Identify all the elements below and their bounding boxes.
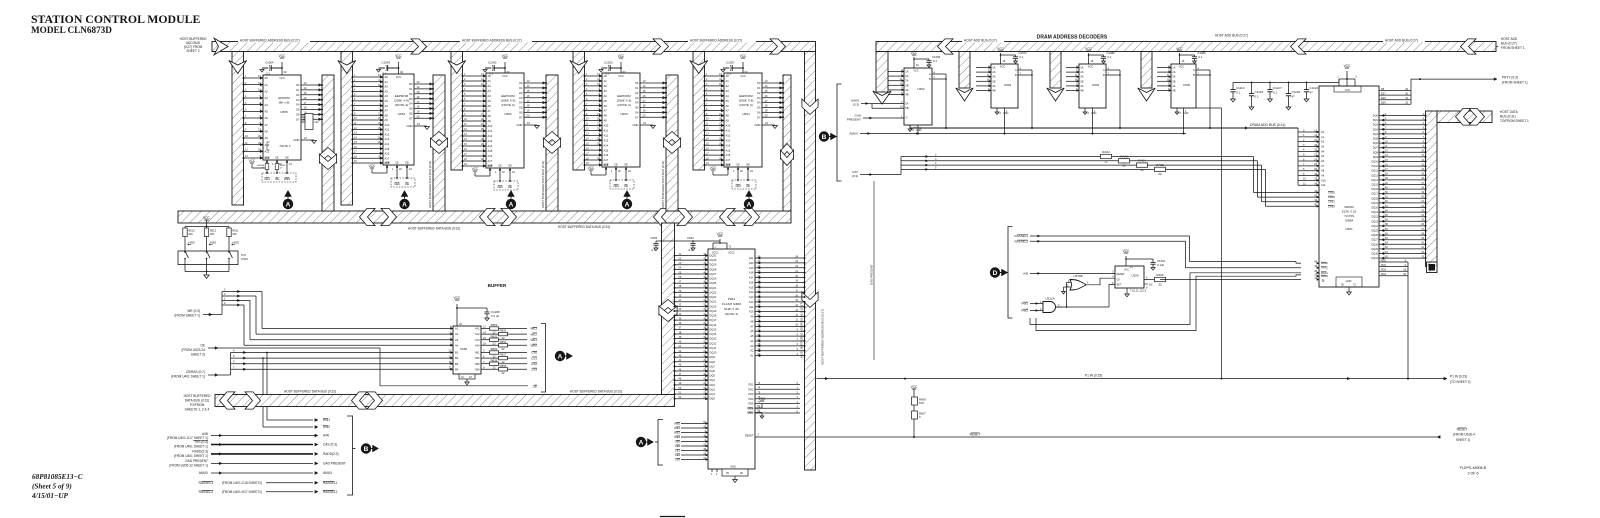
svg-text:CAS (0:3): CAS (0:3) [323, 443, 337, 447]
svg-text:DQ6: DQ6 [1373, 142, 1379, 145]
svg-text:A14: A14 [604, 143, 609, 147]
wire W line to DRAM [1166, 279, 1302, 281]
svg-text:5B: 5B [905, 106, 908, 110]
svg-text:GND: GND [916, 129, 922, 132]
svg-text:CAS1: CAS1 [1328, 200, 1335, 204]
svg-text:A2: A2 [385, 85, 389, 89]
svg-text:GND: GND [1346, 279, 1352, 283]
svg-text:B4: B4 [455, 367, 459, 371]
svg-text:A6: A6 [265, 116, 269, 120]
svg-text:A9: A9 [726, 119, 730, 123]
svg-text:A7: A7 [726, 109, 730, 113]
svg-text:CE: CE [614, 164, 618, 167]
svg-text:VPP1: VPP1 [747, 406, 754, 410]
svg-text:2A: 2A [1172, 70, 1175, 74]
connector marker B bottom-left [361, 443, 371, 453]
svg-text:A6: A6 [726, 104, 730, 108]
svg-text:DQ19: DQ19 [710, 309, 717, 313]
svg-text:DQ26: DQ26 [1371, 234, 1378, 237]
svg-text:HOST ADD BUS (0:27): HOST ADD BUS (0:27) [1215, 34, 1248, 38]
svg-text:22: 22 [1140, 168, 1144, 172]
svg-text:VCC: VCC [454, 296, 461, 300]
svg-text:U601: U601 [1345, 227, 1353, 231]
svg-text:3 OF 6: 3 OF 6 [1468, 472, 1479, 476]
svg-text:C1057: C1057 [726, 61, 735, 65]
svg-text:R652: R652 [491, 334, 498, 338]
bracket buffer outputs [541, 324, 546, 393]
svg-text:A2: A2 [1321, 140, 1325, 144]
signal rows bottom-left [167, 418, 346, 494]
wire OE to buffer enable [230, 348, 528, 386]
svg-text:VCC: VCC [911, 51, 918, 55]
svg-text:RESET: RESET [745, 433, 754, 437]
svg-text:1A: 1A [905, 70, 908, 74]
svg-text:VCC: VCC [1179, 66, 1184, 69]
wire RAS2 RAS3 from gates [1030, 273, 1301, 331]
bus break arrow [770, 39, 786, 54]
svg-text:A4: A4 [385, 94, 389, 98]
svg-text:A: A [286, 201, 291, 208]
svg-text:VCC: VCC [502, 74, 508, 78]
wire decoder output down to P1 IN [1221, 108, 1223, 379]
bus down arrow on right vertical [802, 99, 818, 115]
svg-text:A15: A15 [488, 149, 493, 153]
P651 VPP pins and VCC [747, 397, 766, 419]
svg-text:A9: A9 [488, 119, 492, 123]
svg-text:A8: A8 [726, 114, 730, 118]
svg-text:0.1: 0.1 [1108, 55, 1112, 59]
svg-text:A15: A15 [604, 148, 609, 152]
svg-text:D26: D26 [1381, 97, 1386, 100]
svg-text:A12: A12 [604, 133, 609, 137]
svg-text:A17: A17 [385, 156, 390, 160]
svg-text:STATION CONTROL MODULE: STATION CONTROL MODULE [31, 12, 200, 26]
svg-text:NOTE 3: NOTE 3 [280, 144, 291, 148]
NC stub box beside U655 [301, 116, 305, 118]
svg-text:CK: CK [1117, 279, 1121, 282]
svg-text:A5: A5 [604, 99, 608, 103]
svg-text:A5: A5 [750, 334, 754, 338]
svg-text:(256K X 8): (256K X 8) [394, 99, 409, 103]
svg-text:A: A [625, 201, 630, 208]
svg-text:A11: A11 [488, 129, 493, 133]
bus data drop U654 [783, 75, 791, 211]
bus corner drop to decoders [876, 52, 888, 93]
connector marker B to decoders [819, 131, 829, 141]
svg-text:YA4: YA4 [475, 343, 480, 347]
svg-text:O2: O2 [409, 92, 413, 96]
svg-text:DQ12: DQ12 [1371, 170, 1378, 173]
svg-text:DQ29: DQ29 [710, 263, 717, 267]
connector marker D [990, 267, 1000, 277]
svg-text:DQ14: DQ14 [1371, 179, 1378, 182]
wire CAS branch lines [901, 154, 1155, 171]
svg-text:U652: U652 [504, 112, 512, 116]
svg-text:A1: A1 [385, 80, 389, 84]
wires DRAM PD pins to P1 line [1379, 259, 1408, 378]
svg-text:WE3: WE3 [674, 435, 680, 439]
svg-text:HOST ADD: HOST ADD [1501, 37, 1518, 41]
svg-text:VCC1: VCC1 [712, 252, 719, 255]
AND gate U512A [1021, 297, 1062, 313]
svg-text:(256K X 8): (256K X 8) [501, 99, 516, 103]
svg-text:A2: A2 [265, 89, 269, 93]
svg-text:0.1: 0.1 [1020, 55, 1024, 59]
svg-text:A3: A3 [455, 338, 459, 342]
flash SIMM P651 [708, 249, 755, 469]
wire DRAM ADD BUS (0:11) [910, 123, 1298, 132]
svg-text:5A: 5A [905, 102, 908, 106]
svg-text:47: 47 [1310, 90, 1314, 94]
svg-text:A10: A10 [604, 124, 609, 128]
svg-text:(FROM U401 SHEET 1): (FROM U401 SHEET 1) [174, 445, 208, 449]
svg-text:A15: A15 [749, 285, 754, 289]
svg-text:VPP: VPP [487, 165, 492, 168]
svg-text:22: 22 [1158, 172, 1162, 176]
svg-text:R653: R653 [500, 329, 507, 333]
svg-text:DQ8: DQ8 [1373, 151, 1379, 154]
svg-text:DQ20: DQ20 [1371, 207, 1378, 210]
svg-text:MODEL CLN6873D: MODEL CLN6873D [31, 25, 112, 35]
bus address drop to U654 [693, 52, 705, 171]
bus address drop to U655 [232, 52, 244, 206]
svg-text:SET: SET [1117, 284, 1122, 287]
svg-text:A8: A8 [385, 113, 389, 117]
svg-text:(FROM U401-H17 SHEET1): (FROM U401-H17 SHEET1) [222, 490, 262, 494]
host data bus chevrons [1456, 108, 1472, 125]
svg-text:RAS3: RAS3 [1321, 274, 1328, 278]
svg-text:DQ20: DQ20 [710, 304, 717, 308]
EEPROM U652 [462, 54, 548, 190]
svg-text:(NOTE 4): (NOTE 4) [395, 103, 408, 107]
buffer U656 [449, 296, 500, 385]
svg-text:PD4: PD4 [1381, 273, 1386, 276]
svg-text:GND: GND [517, 123, 523, 127]
svg-text:DQ27: DQ27 [710, 272, 717, 276]
svg-text:PD3: PD3 [1381, 269, 1386, 272]
svg-text:A2: A2 [604, 84, 608, 88]
svg-text:CE: CE [498, 165, 502, 168]
svg-text:VCC: VCC [472, 167, 479, 171]
svg-text:A3: A3 [265, 96, 269, 100]
svg-text:A3: A3 [604, 89, 608, 93]
svg-text:DQ0: DQ0 [1373, 115, 1379, 118]
svg-text:R655: R655 [500, 364, 507, 368]
svg-text:CAS0: CAS0 [1328, 191, 1335, 195]
wire GAD PRESENT vertical run [873, 181, 875, 360]
svg-text:DQ25: DQ25 [710, 281, 717, 285]
data bus chevrons [360, 208, 376, 225]
svg-text:B1: B1 [455, 351, 459, 355]
svg-text:0.1 uF: 0.1 uF [491, 314, 499, 318]
svg-text:A12: A12 [726, 133, 731, 137]
svg-text:(2:3): (2:3) [853, 103, 859, 107]
right bus break arrows [938, 39, 954, 54]
svg-text:R511: R511 [232, 229, 239, 233]
svg-text:A12: A12 [488, 134, 493, 138]
OR gate U510B [1062, 274, 1115, 294]
bus break arrow [411, 39, 427, 54]
svg-text:RADD(2:3): RADD(2:3) [323, 452, 339, 456]
svg-text:DQ15: DQ15 [710, 327, 717, 331]
svg-text:(NOTE 4): (NOTE 4) [739, 103, 752, 107]
svg-text:4B: 4B [1080, 89, 1083, 93]
svg-text:O6: O6 [519, 111, 523, 115]
svg-text:RA02: RA02 [1102, 150, 1110, 154]
VCC rail and decoupling caps C1119 C1126 C1127 C1129 C1132 [1230, 78, 1348, 110]
svg-text:P1 IN (0:23): P1 IN (0:23) [1450, 375, 1467, 379]
label HOST BUFFERED ADDRESS (0:27) [688, 37, 756, 42]
svg-text:DQ15: DQ15 [1371, 184, 1378, 187]
svg-text:RAS1: RAS1 [1321, 271, 1328, 275]
riser chevrons [659, 300, 677, 316]
svg-text:VCC2: VCC2 [728, 252, 735, 255]
svg-text:A3: A3 [385, 89, 389, 93]
bus down arrow on right vertical [802, 292, 818, 308]
svg-text:A1: A1 [265, 83, 269, 87]
svg-text:R512: R512 [210, 229, 217, 233]
svg-text:DQ24: DQ24 [710, 286, 717, 290]
svg-text:OE: OE [624, 164, 628, 167]
svg-text:(NOTE 4): (NOTE 4) [725, 312, 738, 316]
svg-text:(FROM U523-24: (FROM U523-24 [181, 348, 205, 352]
svg-text:DQ17: DQ17 [1371, 193, 1378, 196]
svg-text:O7: O7 [296, 117, 300, 121]
svg-text:A0: A0 [385, 75, 389, 79]
svg-text:C1064: C1064 [265, 61, 274, 65]
svg-text:HOST BUFFERED ADDRESS BUS (0:2: HOST BUFFERED ADDRESS BUS (0:27) [821, 309, 825, 365]
svg-text:(FROM U401 SHEET 1): (FROM U401 SHEET 1) [171, 375, 205, 379]
pullup R608 R607 on RESET [911, 385, 926, 437]
svg-text:VCC: VCC [502, 54, 509, 58]
svg-text:O1: O1 [519, 86, 523, 90]
svg-text:A5: A5 [385, 99, 389, 103]
svg-text:R654: R654 [491, 323, 498, 327]
svg-text:YB1: YB1 [474, 351, 480, 355]
EEPROM U651 [352, 54, 435, 187]
svg-text:A11: A11 [385, 128, 390, 132]
svg-text:O3: O3 [757, 96, 761, 100]
svg-text:O3: O3 [519, 96, 523, 100]
svg-text:22: 22 [501, 371, 505, 375]
svg-text:AMUX: AMUX [199, 471, 209, 475]
svg-text:O7: O7 [757, 115, 761, 119]
svg-text:512K X 32: 512K X 32 [724, 307, 739, 311]
svg-text:B: B [822, 134, 827, 141]
svg-text:VPP: VPP [384, 162, 389, 165]
svg-text:O4: O4 [635, 101, 639, 105]
svg-text:A6: A6 [385, 104, 389, 108]
svg-text:A17: A17 [749, 276, 754, 280]
svg-text:10K: 10K [232, 232, 237, 236]
svg-text:HOST BUFFERED ADDRESS BUS (0:2: HOST BUFFERED ADDRESS BUS (0:27) [800, 302, 804, 358]
svg-text:R650: R650 [491, 347, 498, 351]
svg-text:O0: O0 [409, 82, 413, 86]
svg-text:GND: GND [633, 123, 639, 127]
svg-text:A0: A0 [488, 74, 492, 78]
svg-text:EEPROM: EEPROM [617, 94, 631, 98]
svg-text:VCC: VCC [1176, 47, 1183, 51]
svg-text:DRAM ADDRESS DECODERS: DRAM ADDRESS DECODERS [1037, 35, 1108, 41]
svg-text:DQ23: DQ23 [710, 290, 717, 294]
svg-text:A: A [509, 201, 514, 208]
label HOST BUFFERED DATA BUS (0:31) [556, 224, 618, 229]
label HOST BUFFERED ADDRESS BUS (0:27) [238, 37, 310, 42]
svg-text:OE: OE [508, 165, 512, 168]
svg-text:2A: 2A [1080, 70, 1083, 74]
svg-text:VCC: VCC [279, 54, 286, 58]
svg-text:A21: A21 [749, 256, 754, 260]
svg-text:(FROM SHEET 1): (FROM SHEET 1) [174, 314, 200, 318]
svg-text:U603: U603 [1004, 83, 1012, 87]
svg-text:RAS2: RAS2 [1321, 266, 1328, 270]
svg-text:GAD PRESENT: GAD PRESENT [323, 462, 346, 466]
svg-text:HOST ADD BUS (0:27): HOST ADD BUS (0:27) [1385, 39, 1418, 43]
wire RW1 RW2 stubs down [266, 353, 268, 421]
svg-text:A19: A19 [749, 266, 754, 270]
svg-text:B: B [929, 77, 931, 81]
connector marker A under U651 [401, 191, 408, 197]
svg-text:22: 22 [501, 347, 505, 351]
svg-text:512K X 32: 512K X 32 [1342, 210, 1357, 214]
svg-text:A: A [1103, 68, 1105, 72]
svg-text:O5: O5 [409, 107, 413, 111]
connector marker A under U655 [285, 191, 292, 197]
svg-text:(FROM U205-12 SHEET 1): (FROM U205-12 SHEET 1) [169, 464, 208, 468]
svg-text:VCC: VCC [279, 76, 285, 80]
wires P651 DQ pins to data bus riser [674, 253, 717, 401]
svg-text:0.1: 0.1 [1273, 90, 1278, 94]
svg-text:CE1: CE1 [675, 449, 681, 453]
svg-text:A: A [1193, 68, 1195, 72]
svg-text:DQ16: DQ16 [1371, 188, 1378, 191]
svg-text:VPP: VPP [603, 164, 608, 167]
svg-text:GND: GND [730, 466, 736, 469]
svg-text:A9: A9 [604, 119, 608, 123]
svg-text:R657: R657 [500, 353, 507, 357]
svg-text:O7: O7 [519, 115, 523, 119]
svg-text:H502: H502 [189, 241, 196, 245]
svg-text:DQ22: DQ22 [1371, 216, 1378, 219]
svg-text:VCC: VCC [911, 385, 918, 389]
decoder U605 [1157, 47, 1211, 135]
svg-text:32: 32 [623, 70, 627, 74]
svg-text:A: A [402, 201, 407, 208]
svg-text:NC: NC [1149, 283, 1153, 286]
svg-text:H501: H501 [210, 241, 217, 245]
svg-text:SHEET 1): SHEET 1) [1456, 438, 1470, 442]
lower bus start arrows [220, 392, 236, 409]
svg-text:YA2: YA2 [475, 332, 480, 336]
svg-text:VCC: VCC [1085, 47, 1092, 51]
svg-text:O7: O7 [635, 115, 639, 119]
svg-text:O6: O6 [757, 111, 761, 115]
svg-text:EPROM: EPROM [278, 96, 290, 100]
bus end cap [1427, 262, 1438, 273]
svg-text:A18: A18 [749, 271, 754, 275]
svg-text:A2: A2 [455, 332, 459, 336]
connector marker A under U654 [746, 191, 753, 197]
svg-text:VCC: VCC [395, 54, 402, 58]
svg-text:A14: A14 [488, 144, 493, 148]
svg-text:GAD PRESENT: GAD PRESENT [870, 264, 874, 285]
svg-text:A9: A9 [385, 118, 389, 122]
svg-text:O1: O1 [757, 86, 761, 90]
svg-text:4A: 4A [992, 84, 995, 88]
svg-text:1A: 1A [1172, 66, 1175, 70]
svg-text:O0: O0 [296, 83, 300, 87]
svg-text:(256K X 8): (256K X 8) [739, 99, 754, 103]
svg-text:O4: O4 [409, 102, 413, 106]
svg-text:0.1: 0.1 [933, 59, 937, 63]
svg-text:A12: A12 [749, 300, 754, 304]
svg-text:OE: OE [200, 344, 205, 348]
svg-text:DQ7: DQ7 [710, 364, 716, 368]
svg-text:DQ25: DQ25 [1371, 230, 1378, 233]
svg-text:R651: R651 [500, 340, 507, 344]
svg-text:4A: 4A [1080, 84, 1083, 88]
svg-text:U655: U655 [280, 110, 288, 114]
svg-text:GND: GND [1003, 112, 1009, 115]
EEPROM U653 [584, 54, 668, 189]
svg-text:U605: U605 [1183, 83, 1191, 87]
svg-text:VCC: VCC [740, 54, 747, 58]
bus HOST DATA BUS horizontal to sheet [1437, 111, 1492, 123]
buffer output resistors R654 R653 R652 R651 and R650 R655 R656 R658 [481, 323, 537, 375]
connector marker A under U653 [624, 191, 631, 197]
bus address drop to U652 [451, 52, 463, 171]
EEPROM U654 [704, 54, 785, 189]
decoder U602 [888, 51, 947, 135]
svg-text:H503: H503 [233, 241, 240, 245]
bus drop arrow to U604 [1050, 52, 1061, 89]
svg-text:A0: A0 [265, 76, 269, 80]
svg-text:A3: A3 [1321, 145, 1325, 149]
svg-text:WE2: WE2 [674, 431, 680, 435]
svg-text:A14: A14 [749, 290, 754, 294]
lower bus chevron pair [352, 392, 368, 409]
svg-text:DATA BUS (0:31): DATA BUS (0:31) [185, 399, 210, 403]
svg-text:RAS0: RAS0 [1321, 261, 1328, 265]
svg-text:DQ18: DQ18 [1371, 197, 1378, 200]
svg-text:DQ1: DQ1 [710, 392, 716, 396]
svg-text:A4: A4 [604, 94, 608, 98]
svg-text:A11: A11 [749, 305, 754, 309]
svg-text:O5: O5 [757, 106, 761, 110]
wires P651 address pins to address bus [749, 255, 806, 357]
svg-text:U510B: U510B [1073, 274, 1082, 278]
svg-text:O4: O4 [296, 103, 300, 107]
svg-text:A4: A4 [726, 94, 730, 98]
svg-text:FLEPS-48908-B: FLEPS-48908-B [1460, 466, 1487, 470]
svg-text:NC: NC [315, 120, 319, 124]
svg-text:A17: A17 [726, 158, 731, 162]
svg-text:10K: 10K [210, 232, 215, 236]
svg-text:4B: 4B [992, 89, 995, 93]
svg-text:A2: A2 [726, 84, 730, 88]
svg-text:VCC: VCC [249, 159, 256, 163]
EEPROM U655 [243, 54, 324, 182]
bus address drop to U651 [341, 52, 353, 206]
bus HOST ADD BUS (0:27) top-right horizontal [876, 42, 1496, 52]
svg-text:DQ21: DQ21 [1371, 211, 1378, 214]
svg-text:DQ7: DQ7 [1373, 147, 1379, 150]
svg-text:DQ18: DQ18 [710, 314, 717, 318]
svg-text:OE: OE [405, 162, 409, 165]
svg-text:22: 22 [492, 342, 496, 346]
svg-text:HOST BUFFERED: HOST BUFFERED [184, 394, 212, 398]
svg-text:HOST BUFFERED DATA BUS (0:31): HOST BUFFERED DATA BUS (0:31) [661, 161, 665, 208]
